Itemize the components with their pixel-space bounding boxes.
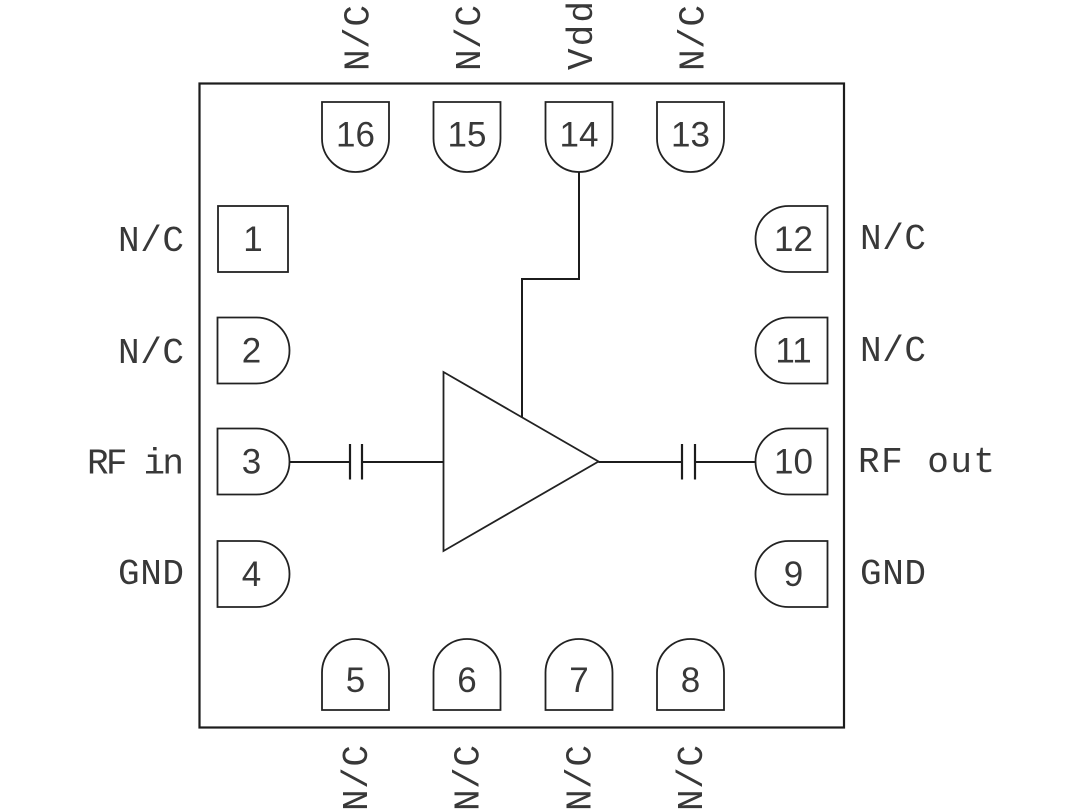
svg-text:5: 5 (346, 661, 365, 700)
svg-text:N/C: N/C (672, 745, 713, 809)
svg-text:N/C: N/C (339, 5, 380, 71)
svg-text:N/C: N/C (561, 745, 602, 809)
svg-text:N/C: N/C (674, 5, 715, 71)
svg-text:14: 14 (560, 116, 599, 155)
svg-text:11: 11 (775, 332, 811, 371)
svg-text:1: 1 (243, 220, 262, 259)
svg-text:N/C: N/C (337, 745, 378, 809)
svg-text:N/C: N/C (860, 331, 926, 372)
svg-text:13: 13 (671, 116, 710, 155)
svg-text:10: 10 (774, 443, 813, 482)
svg-text:RF in: RF in (87, 444, 184, 485)
svg-text:GND: GND (118, 554, 184, 595)
svg-text:N/C: N/C (860, 219, 926, 260)
svg-text:12: 12 (774, 220, 813, 259)
svg-text:15: 15 (448, 116, 487, 155)
svg-text:Vdd: Vdd (562, 1, 603, 70)
svg-text:3: 3 (242, 443, 261, 482)
svg-text:2: 2 (242, 332, 261, 371)
svg-text:GND: GND (860, 554, 926, 595)
svg-text:9: 9 (784, 555, 803, 594)
svg-text:7: 7 (569, 661, 588, 700)
svg-text:16: 16 (336, 116, 375, 155)
svg-text:N/C: N/C (118, 221, 184, 262)
svg-text:N/C: N/C (118, 333, 184, 374)
svg-text:N/C: N/C (450, 5, 491, 71)
svg-text:4: 4 (242, 555, 261, 594)
svg-text:6: 6 (457, 661, 476, 700)
svg-text:8: 8 (681, 661, 700, 700)
svg-text:RF out: RF out (858, 442, 995, 483)
svg-text:N/C: N/C (449, 745, 490, 809)
